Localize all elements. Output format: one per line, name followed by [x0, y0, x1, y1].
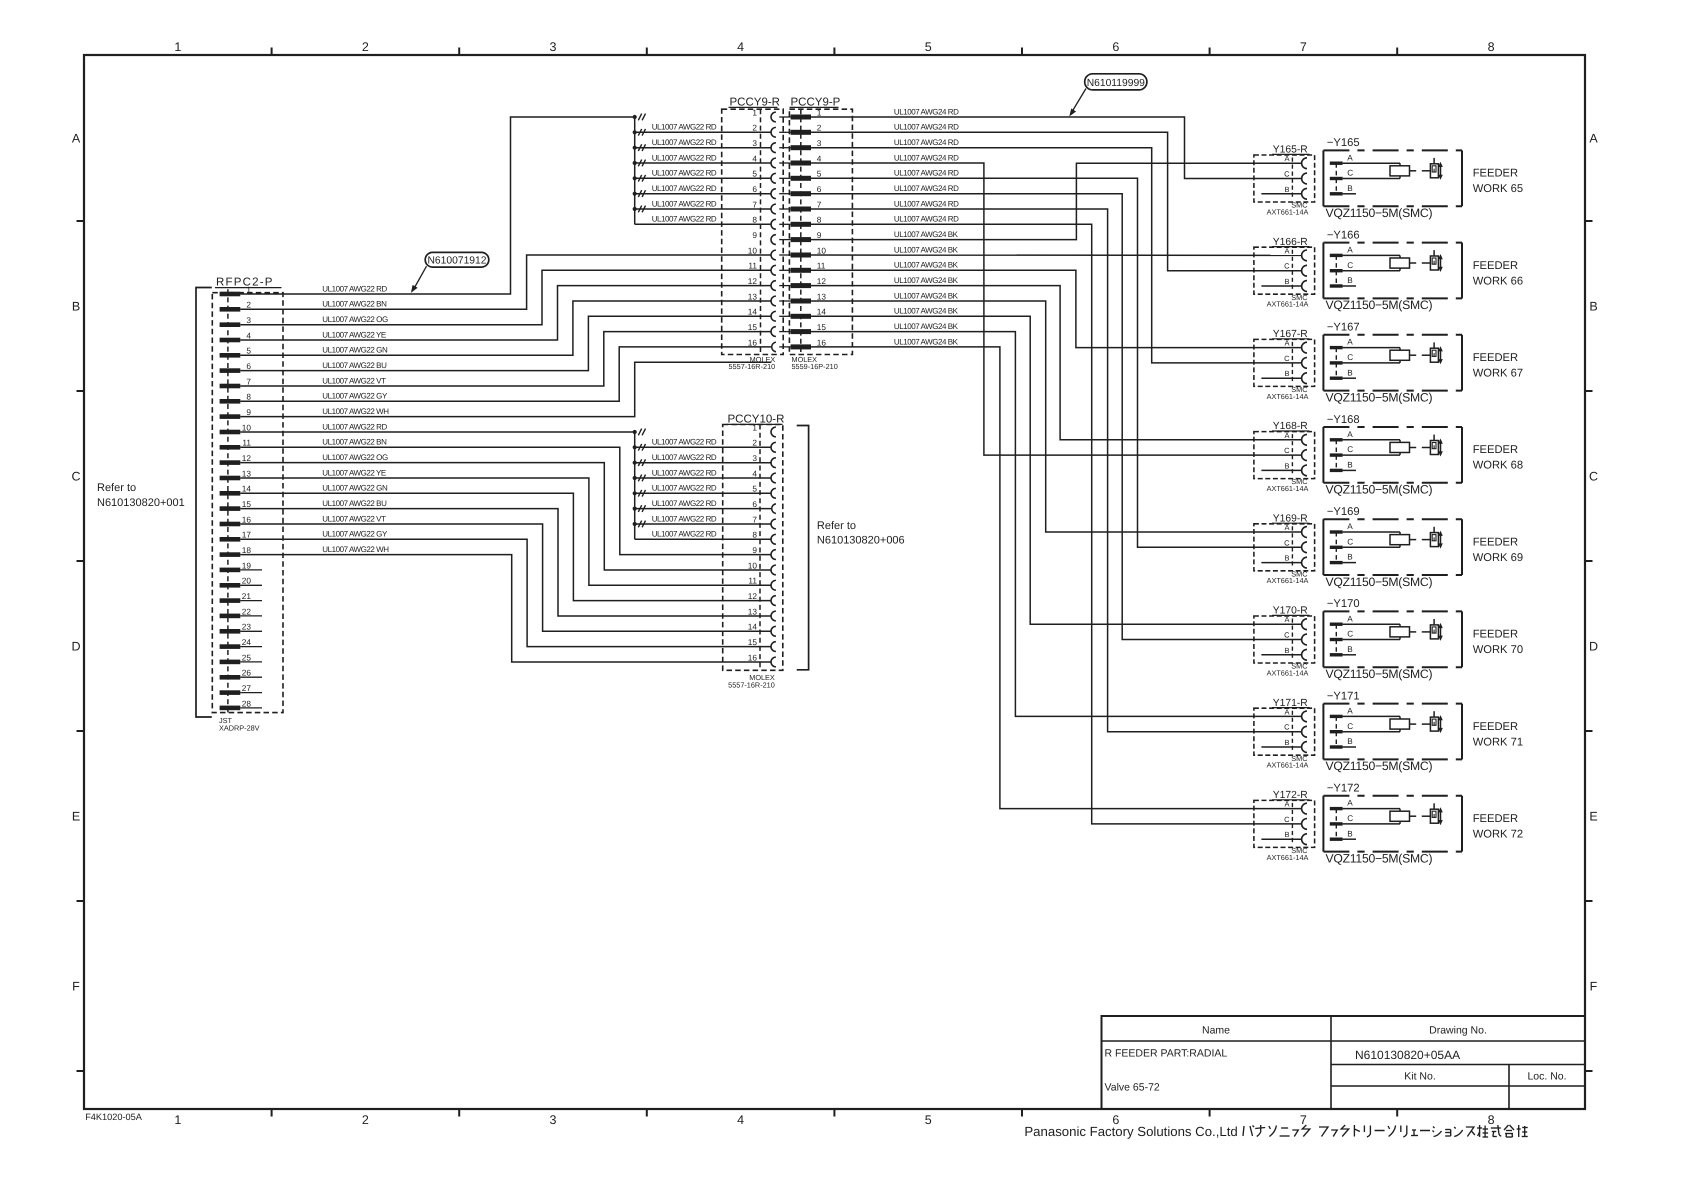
svg-text:UL1007 AWG22 RD: UL1007 AWG22 RD [652, 499, 717, 508]
svg-text:14: 14 [748, 622, 758, 632]
PCCY9 mating pin row 8 [779, 223, 790, 225]
manual override / valve symbol of -Y172 [1430, 803, 1442, 825]
svg-text:4: 4 [817, 153, 822, 163]
RFPC2-P pin 18 (male contact) [220, 552, 241, 557]
svg-text:−Y170: −Y170 [1327, 598, 1360, 610]
svg-text:AXT661-14A: AXT661-14A [1267, 392, 1309, 401]
svg-text:UL1007 AWG22 RD: UL1007 AWG22 RD [652, 530, 717, 539]
RFPC2-P pin 16 (male contact) [220, 522, 241, 527]
svg-text:A: A [1347, 707, 1353, 716]
svg-text:A: A [1347, 522, 1353, 531]
wire RFPC2-P pin17 to PCCY10-R pin15 (UL1007 AWG22 GY) [240, 539, 771, 646]
manual override / valve symbol of -Y165 [1430, 158, 1442, 180]
svg-text:Loc. No.: Loc. No. [1527, 1071, 1566, 1083]
wire PCCY9-P pin1 to Y165-R pin C (UL1007 AWG24 RD) [811, 117, 1301, 179]
svg-text:5: 5 [925, 1113, 932, 1127]
PCCY9 mating pin row 13 [779, 300, 790, 302]
valve -Y167 pin column centerline [1335, 348, 1337, 379]
svg-text:3: 3 [246, 315, 251, 325]
valve -Y168 pin C terminal bar [1330, 453, 1343, 456]
svg-text:4: 4 [752, 153, 757, 163]
svg-text:7: 7 [1300, 40, 1307, 54]
connector name PCCY10-R [727, 413, 785, 425]
bracket (refer) right of PCCY10-R [797, 426, 809, 670]
svg-text:Refer to: Refer to [97, 482, 136, 494]
svg-text:C: C [1347, 169, 1353, 178]
svg-text:UL1007 AWG22 RD: UL1007 AWG22 RD [652, 468, 717, 477]
svg-text:UL1007 AWG24 RD: UL1007 AWG24 RD [894, 107, 959, 116]
splice junction dot PCCY9 row 4 [633, 161, 637, 165]
valve -Y165 pin B terminal bar [1330, 192, 1343, 195]
wire RFPC2-P pin18 to PCCY10-R pin16 (UL1007 AWG22 WH) [240, 555, 771, 662]
PCCY9-R pin 16 female contact [772, 342, 776, 352]
svg-text:−Y168: −Y168 [1327, 414, 1360, 426]
solenoid valve -Y172 (VQZ1150-5M SMC) body [1323, 796, 1462, 852]
PCCY9 mating pin row 2 [779, 131, 790, 133]
svg-text:3: 3 [752, 138, 757, 148]
svg-text:14: 14 [242, 484, 252, 494]
PCCY9-R pin 8 female contact [771, 219, 776, 229]
PCCY9-P pin 10 male contact [791, 253, 811, 258]
svg-text:4: 4 [737, 1113, 744, 1127]
svg-text:B: B [1347, 645, 1353, 654]
PCCY10-R pin 11 female contact [771, 580, 776, 590]
svg-text:C: C [1284, 631, 1290, 640]
svg-text:UL1007 AWG22 BU: UL1007 AWG22 BU [322, 361, 387, 370]
svg-text:F4K1020-05A: F4K1020-05A [85, 1112, 143, 1122]
connector Y168-R (SMC AXT661-14A) body [1254, 432, 1315, 479]
splice junction dot PCCY10 row 7 [633, 522, 637, 526]
svg-text:AXT661-14A: AXT661-14A [1267, 484, 1309, 493]
crimp mark // PCCY9 row 2 [638, 129, 645, 136]
title block [1102, 1016, 1586, 1109]
svg-text:UL1007 AWG22 YE: UL1007 AWG22 YE [322, 468, 386, 477]
connector name Y168-R [1272, 421, 1310, 432]
svg-text:UL1007 AWG22 RD: UL1007 AWG22 RD [652, 514, 717, 523]
crimp mark // PCCY9 row 7 [638, 206, 645, 213]
RFPC2-P pin 2 (male contact) [220, 307, 241, 312]
part label MOLEX 5557-16R-210 (PCCY10) [728, 673, 775, 689]
valve -Y165 pin B internal stub [1343, 193, 1356, 195]
PCCY9-P pin 13 male contact [791, 299, 811, 304]
RFPC2-P pin 28 (male contact) [220, 706, 241, 711]
svg-text:UL1007 AWG22 RD: UL1007 AWG22 RD [652, 453, 717, 462]
svg-text:B: B [1284, 185, 1289, 194]
RFPC2-P pin 15 (male contact) [220, 506, 241, 511]
PCCY9-R pin 12 female contact [771, 281, 776, 291]
valve -Y170 pin B internal stub [1343, 654, 1356, 656]
svg-text:21: 21 [242, 591, 252, 601]
svg-text:10: 10 [748, 560, 758, 570]
PCCY10-R pin 13 female contact [771, 611, 776, 621]
svg-text:20: 20 [242, 576, 252, 586]
wire splice-bus to PCCY10-R pin3 (UL1007 AWG22 RD) [635, 462, 772, 464]
valve -Y172 pin B internal stub [1343, 838, 1356, 840]
valve -Y172 pin column centerline [1335, 809, 1337, 840]
svg-text:FEEDER: FEEDER [1473, 168, 1518, 180]
svg-text:VQZ1150−5M(SMC): VQZ1150−5M(SMC) [1326, 575, 1433, 589]
PCCY10-R pin 12 female contact [771, 596, 776, 606]
bracket (harness group) left of RFPC2-P [196, 288, 212, 718]
svg-text:7: 7 [752, 514, 757, 524]
wire PCCY9-P pin11 to Y167-R pin A (UL1007 AWG24 BK) [811, 270, 1301, 347]
svg-text:4: 4 [246, 330, 251, 340]
Y167-R pin B stub wire [1261, 377, 1301, 379]
svg-text:VQZ1150−5M(SMC): VQZ1150−5M(SMC) [1326, 298, 1433, 312]
PCCY10-R pin 10 female contact [771, 565, 776, 575]
svg-text:1: 1 [174, 1113, 181, 1127]
Y165-R pin B stub wire [1261, 193, 1301, 195]
svg-text:UL1007 AWG22 RD: UL1007 AWG22 RD [652, 184, 717, 193]
PCCY9-P pin 1 male contact [791, 115, 811, 120]
svg-text:N610130820+006: N610130820+006 [817, 535, 905, 547]
svg-text:UL1007 AWG22 WH: UL1007 AWG22 WH [322, 407, 389, 416]
solenoid valve -Y169 (VQZ1150-5M SMC) body [1323, 519, 1462, 575]
svg-text:6: 6 [752, 184, 757, 194]
svg-text:B: B [72, 300, 80, 314]
splice junction dot PCCY10 row 3 [633, 461, 637, 465]
RFPC2-P pin 25 (male contact) [220, 660, 241, 665]
RFPC2-P pin 23 stub wire [240, 630, 262, 632]
PCCY10-R pin 7 female contact [771, 519, 776, 529]
PCCY9-P pin 5 male contact [791, 176, 811, 181]
svg-text:A: A [1347, 153, 1353, 162]
svg-text:9: 9 [752, 230, 757, 240]
svg-text:B: B [1284, 461, 1289, 470]
pilot link of -Y166 [1410, 262, 1431, 264]
Y172-R pin C female contact [1302, 819, 1307, 830]
PCCY9-R pin 1 female contact [771, 112, 776, 122]
RFPC2-P pin 12 (male contact) [220, 460, 241, 465]
load label FEEDER WORK 66 [1473, 260, 1523, 288]
wire PCCY9-P pin12 to Y168-R pin A (UL1007 AWG24 BK) [811, 286, 1301, 440]
svg-text:5: 5 [925, 40, 932, 54]
pilot link of -Y168 [1410, 447, 1431, 449]
svg-text:B: B [1347, 737, 1353, 746]
Y170-R pin A female contact [1302, 619, 1307, 630]
svg-text:14: 14 [817, 307, 827, 317]
valve -Y172 pin A terminal bar [1330, 807, 1343, 810]
svg-text:16: 16 [748, 652, 758, 662]
svg-text:UL1007 AWG24 RD: UL1007 AWG24 RD [894, 199, 959, 208]
Y172-R pin A female contact [1302, 803, 1307, 814]
svg-text:FEEDER: FEEDER [1473, 813, 1518, 825]
svg-text:E: E [72, 810, 80, 824]
wire RFPC2-P pin6 to PCCY9-R pin14 (UL1007 AWG22 BU) [240, 316, 771, 370]
wire splice-bus to PCCY9-R pin3 (UL1007 AWG22 RD) [635, 147, 772, 149]
crimp mark // PCCY10 row 3 [638, 459, 645, 466]
svg-text:23: 23 [242, 622, 252, 632]
solenoid coil of -Y168 [1343, 440, 1410, 455]
splice junction dot PCCY10 row 6 [633, 507, 637, 511]
wire PCCY9-P pin7 to Y171-R pin C (UL1007 AWG24 RD) [811, 209, 1301, 732]
splice junction dot PCCY9 row 5 [633, 176, 637, 180]
svg-text:26: 26 [242, 668, 252, 678]
connector name RFPC2-P [215, 277, 282, 289]
RFPC2-P pin 24 (male contact) [220, 644, 241, 649]
svg-text:15: 15 [748, 637, 758, 647]
splice junction dot PCCY9 row 1 [633, 115, 637, 119]
manual override / valve symbol of -Y166 [1430, 250, 1442, 272]
PCCY9 mating pin row 9 [779, 239, 790, 241]
part label SMC AXT661-14A (Y170-R) [1267, 662, 1309, 678]
svg-text:UL1007 AWG22 GN: UL1007 AWG22 GN [322, 346, 388, 355]
RFPC2-P pin 10 (male contact) [220, 430, 241, 435]
svg-text:AXT661-14A: AXT661-14A [1267, 576, 1309, 585]
svg-text:UL1007 AWG22 RD: UL1007 AWG22 RD [652, 199, 717, 208]
RFPC2-P pin 22 stub wire [240, 615, 262, 617]
svg-text:UL1007 AWG22 RD: UL1007 AWG22 RD [652, 215, 717, 224]
svg-text:C: C [1347, 445, 1353, 454]
wire splice-bus to PCCY9-R pin8 (UL1007 AWG22 RD) [635, 223, 772, 225]
svg-text:12: 12 [748, 591, 758, 601]
svg-text:C: C [1284, 815, 1290, 824]
connector name Y166-R [1272, 237, 1310, 248]
RFPC2-P pin 8 (male contact) [220, 399, 241, 404]
wire RFPC2-P pin9 to PCCY9-R pin17 (UL1007 AWG22 WH) [240, 362, 771, 416]
wire PCCY9-P pin5 to Y169-R pin C (UL1007 AWG24 RD) [811, 178, 1301, 547]
wire PCCY9-P pin6 to Y170-R pin C (UL1007 AWG24 RD) [811, 194, 1301, 640]
Y171-R pin B stub wire [1261, 746, 1301, 748]
pilot link of -Y167 [1410, 354, 1431, 356]
wire splice-bus to PCCY9-R pin2 (UL1007 AWG22 RD) [635, 131, 772, 133]
svg-text:11: 11 [748, 261, 757, 271]
svg-text:2: 2 [752, 438, 757, 448]
solenoid valve -Y168 (VQZ1150-5M SMC) body [1323, 427, 1462, 483]
Y169-R pin A female contact [1302, 527, 1307, 538]
PCCY10-R pin 15 female contact [771, 642, 776, 652]
valve -Y169 pin column centerline [1335, 532, 1337, 563]
RFPC2-P pin 20 stub wire [240, 584, 262, 586]
valve -Y166 pin B internal stub [1343, 285, 1356, 287]
connector PCCY10-R (MOLEX 5557-16R-210) body [723, 425, 783, 671]
connector PCCY9-R (MOLEX 5557-16R-210) body [722, 109, 784, 354]
PCCY9-R pin 5 female contact [771, 173, 776, 183]
connector Y170-R (SMC AXT661-14A) body [1254, 616, 1315, 663]
RFPC2-P pin 27 stub wire [240, 692, 262, 694]
pilot link of -Y165 [1410, 170, 1431, 172]
splice junction dot PCCY9 row 3 [633, 146, 637, 150]
RFPC2-P pin 26 stub wire [240, 676, 262, 678]
svg-text:11: 11 [748, 576, 757, 586]
svg-text:7: 7 [817, 199, 822, 209]
valve -Y167 pin A terminal bar [1330, 346, 1343, 349]
callout balloon N610071912 (harness part no.) [411, 252, 489, 293]
connector name Y167-R [1272, 329, 1310, 340]
valve -Y165 pin C terminal bar [1330, 177, 1343, 180]
Y168-R pin C female contact [1302, 450, 1307, 461]
svg-text:4: 4 [737, 40, 744, 54]
PCCY10-R pin 4 female contact [771, 473, 776, 483]
RFPC2-P pin 19 (male contact) [220, 568, 241, 573]
wire PCCY9-P pin4 to Y168-R pin C (UL1007 AWG24 RD) [811, 163, 1301, 455]
svg-text:13: 13 [242, 468, 252, 478]
svg-text:Kit No.: Kit No. [1404, 1071, 1436, 1083]
PCCY10-R pin 8 female contact [771, 534, 776, 544]
svg-text:19: 19 [242, 560, 252, 570]
PCCY9 mating pin row 11 [779, 269, 790, 271]
Y167-R pin A female contact [1302, 342, 1307, 353]
crimp mark // PCCY9 row 5 [638, 175, 645, 182]
connector Y171-R (SMC AXT661-14A) body [1254, 708, 1315, 755]
svg-text:C: C [1347, 353, 1353, 362]
splice junction dot PCCY10 row 1 [633, 430, 637, 434]
PCCY9-P pin 2 male contact [791, 130, 811, 135]
wire RFPC2-P pin13 to PCCY10-R pin11 (UL1007 AWG22 YE) [240, 478, 771, 585]
valve -Y167 pin B terminal bar [1330, 377, 1343, 380]
svg-text:C: C [1284, 446, 1290, 455]
svg-text:B: B [1284, 277, 1289, 286]
svg-text:10: 10 [817, 245, 827, 255]
part label SMC AXT661-14A (Y169-R) [1267, 569, 1309, 585]
RFPC2-P pin 28 stub wire [240, 707, 262, 709]
PCCY9 mating pin row 3 [779, 147, 790, 149]
PCCY9 mating pin row 7 [779, 208, 790, 210]
connector name Y172-R [1272, 790, 1310, 801]
wire PCCY9-P pin9 to Y165-R pin A (UL1007 AWG24 BK) [811, 163, 1301, 239]
svg-text:2: 2 [817, 123, 822, 133]
svg-text:UL1007 AWG24 BK: UL1007 AWG24 BK [894, 337, 959, 346]
svg-text:C: C [1284, 262, 1290, 271]
svg-text:UL1007 AWG22 VT: UL1007 AWG22 VT [322, 376, 386, 385]
load label FEEDER WORK 65 [1473, 168, 1523, 196]
solenoid coil of -Y171 [1343, 716, 1410, 731]
svg-text:FEEDER: FEEDER [1473, 721, 1518, 733]
svg-text:UL1007 AWG22 RD: UL1007 AWG22 RD [652, 123, 717, 132]
PCCY9 mating pin row 4 [779, 162, 790, 164]
wire splice-bus to PCCY9-R pin5 (UL1007 AWG22 RD) [635, 177, 772, 179]
valve -Y169 pin B internal stub [1343, 562, 1356, 564]
svg-text:FEEDER: FEEDER [1473, 260, 1518, 272]
svg-text:WORK 70: WORK 70 [1473, 644, 1523, 656]
svg-text:12: 12 [242, 453, 252, 463]
valve -Y169 pin B terminal bar [1330, 561, 1343, 564]
svg-text:A: A [72, 132, 81, 146]
part label SMC AXT661-14A (Y171-R) [1267, 754, 1309, 770]
part label SMC AXT661-14A (Y165-R) [1267, 201, 1309, 217]
svg-text:UL1007 AWG22 RD: UL1007 AWG22 RD [652, 153, 717, 162]
svg-text:A: A [1347, 430, 1353, 439]
svg-text:5: 5 [246, 346, 251, 356]
svg-text:A: A [1284, 707, 1289, 716]
svg-text:A: A [1347, 799, 1353, 808]
load label FEEDER WORK 69 [1473, 536, 1523, 564]
note: Refer to N610130820+001 [97, 482, 185, 509]
svg-text:UL1007 AWG24 BK: UL1007 AWG24 BK [894, 322, 959, 331]
wire RFPC2-P pin5 to PCCY9-R pin13 (UL1007 AWG22 GN) [240, 301, 771, 355]
wire splice-bus to PCCY9-R pin7 (UL1007 AWG22 RD) [635, 208, 772, 210]
PCCY9-R pin 7 female contact [771, 204, 776, 214]
RFPC2-P pin 5 (male contact) [220, 353, 241, 358]
svg-text:16: 16 [748, 337, 758, 347]
RFPC2-P pin 19 stub wire [240, 569, 262, 571]
svg-text:UL1007 AWG24 BK: UL1007 AWG24 BK [894, 291, 959, 300]
Y165-R pin A female contact [1302, 158, 1307, 169]
svg-text:−Y166: −Y166 [1327, 229, 1360, 241]
svg-text:B: B [1347, 461, 1353, 470]
valve -Y169 pin A terminal bar [1330, 530, 1343, 533]
PCCY10-R pin 14 female contact [771, 626, 776, 636]
svg-text:2: 2 [752, 123, 757, 133]
wire RFPC2-P pin1 to PCCY9-R pin1 (UL1007 AWG22 RD) [240, 117, 634, 294]
svg-text:FEEDER: FEEDER [1473, 629, 1518, 641]
svg-text:25: 25 [242, 652, 252, 662]
wire splice-bus to PCCY9-R pin6 (UL1007 AWG22 RD) [635, 193, 772, 195]
svg-text:8: 8 [752, 215, 757, 225]
Y169-R pin B female contact [1302, 557, 1307, 568]
svg-text:8: 8 [246, 392, 251, 402]
svg-text:C: C [1284, 354, 1290, 363]
svg-text:VQZ1150−5M(SMC): VQZ1150−5M(SMC) [1326, 759, 1433, 773]
svg-text:12: 12 [817, 276, 827, 286]
PCCY9-P pin 15 male contact [791, 329, 811, 334]
wire splice-bus to PCCY10-R pin7 (UL1007 AWG22 RD) [635, 523, 772, 525]
valve -Y166 pin column centerline [1335, 255, 1337, 286]
svg-text:5557-16R-210: 5557-16R-210 [728, 681, 775, 690]
PCCY9-R pin 2 female contact [771, 127, 776, 137]
valve -Y167 pin B internal stub [1343, 377, 1356, 379]
PCCY9-R pin 15 female contact [771, 327, 776, 337]
svg-text:5: 5 [752, 484, 757, 494]
svg-text:9: 9 [246, 407, 251, 417]
connector PCCY9-P (MOLEX 5559-16P-210) body [789, 109, 852, 354]
svg-text:2: 2 [362, 40, 369, 54]
crimp mark // PCCY10 row 6 [638, 505, 645, 512]
PCCY9-R pin 10 female contact [771, 250, 776, 260]
splice junction dot PCCY10 row 4 [633, 476, 637, 480]
splice bus feeding PCCY9-R pins 1-8 [634, 117, 636, 224]
svg-text:27: 27 [242, 683, 252, 693]
svg-text:C: C [1347, 814, 1353, 823]
load label FEEDER WORK 67 [1473, 352, 1523, 380]
valve -Y168 pin A terminal bar [1330, 438, 1343, 441]
Y167-R pin C female contact [1302, 358, 1307, 369]
PCCY10-R pin 2 female contact [771, 442, 776, 452]
wire RFPC2-P pin8 to PCCY9-R pin16 (UL1007 AWG22 GY) [240, 347, 771, 401]
wire RFPC2-P pin3 to PCCY9-R pin11 (UL1007 AWG22 OG) [240, 270, 771, 324]
svg-text:R FEEDER PART:RADIAL: R FEEDER PART:RADIAL [1105, 1048, 1228, 1060]
svg-text:3: 3 [550, 1113, 557, 1127]
solenoid coil of -Y167 [1343, 348, 1410, 363]
PCCY9 mating pin row 15 [779, 331, 790, 333]
PCCY9-P pin 4 male contact [791, 161, 811, 166]
svg-text:1: 1 [817, 107, 822, 117]
svg-text:1: 1 [246, 284, 251, 294]
PCCY10-R pin 5 female contact [771, 488, 776, 498]
svg-text:6: 6 [817, 184, 822, 194]
svg-text:C: C [1589, 470, 1598, 484]
RFPC2-P pin 25 stub wire [240, 661, 262, 663]
svg-text:1: 1 [752, 422, 757, 432]
Y166-R pin C female contact [1302, 265, 1307, 276]
svg-text:6: 6 [246, 361, 251, 371]
svg-text:A: A [1284, 339, 1289, 348]
wire splice-bus to PCCY10-R pin6 (UL1007 AWG22 RD) [635, 508, 772, 510]
svg-text:14: 14 [748, 307, 758, 317]
svg-text:7: 7 [246, 376, 251, 386]
svg-text:B: B [1284, 369, 1289, 378]
svg-text:A: A [1347, 338, 1353, 347]
svg-text:UL1007 AWG24 RD: UL1007 AWG24 RD [894, 153, 959, 162]
svg-text:12: 12 [748, 276, 758, 286]
svg-text:UL1007 AWG22 GN: UL1007 AWG22 GN [322, 484, 388, 493]
PCCY9 mating pin row 5 [779, 177, 790, 179]
pilot link of -Y171 [1410, 723, 1431, 725]
valve -Y166 pin A terminal bar [1330, 254, 1343, 257]
valve -Y170 pin A terminal bar [1330, 623, 1343, 626]
svg-text:UL1007 AWG24 RD: UL1007 AWG24 RD [894, 215, 959, 224]
RFPC2-P pin 20 (male contact) [220, 583, 241, 588]
